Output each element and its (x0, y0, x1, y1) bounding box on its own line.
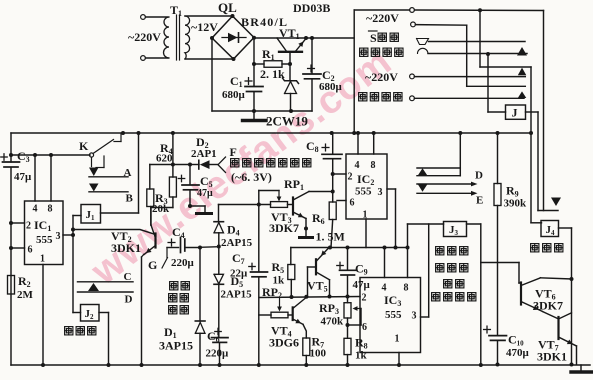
ground VT3 emitter (305, 219, 307, 229)
terminal control output (410, 96, 415, 101)
node bridge+ to R1/C1 (253, 38, 255, 64)
svg-text:2AP1: 2AP1 (191, 148, 217, 160)
wire rail corner to J4 (530, 133, 532, 223)
wire +12V feed to lower rail (479, 10, 481, 67)
wire (145, 16, 168, 18)
svg-text:47μ: 47μ (14, 171, 32, 183)
op IC3 555 timer (360, 278, 421, 353)
wire mid rail y247 (291, 247, 408, 249)
svg-text:D: D (125, 294, 133, 306)
contact arrow down (418, 184, 428, 192)
svg-text:~12V: ~12V (191, 20, 218, 34)
svg-text:8: 8 (48, 204, 53, 215)
svg-text:1. 5M: 1. 5M (316, 230, 345, 244)
svg-text:~220V: ~220V (366, 11, 399, 25)
svg-text:2M: 2M (17, 289, 34, 301)
svg-text:6: 6 (362, 322, 367, 333)
contact C (78, 281, 134, 283)
contact arrow (518, 68, 527, 76)
svg-text:2: 2 (362, 293, 367, 304)
svg-text:1: 1 (395, 334, 400, 345)
svg-text:100: 100 (310, 348, 327, 360)
svg-text:470μ: 470μ (506, 347, 530, 359)
svg-text:G: G (148, 258, 157, 272)
wire K feed (11, 154, 90, 156)
contact E line (417, 192, 472, 194)
label off-HV off-LV circuit power switch (436, 247, 444, 255)
wire pin1 down (398, 353, 400, 366)
wire VT2 base (73, 230, 154, 235)
svg-text:6: 6 (350, 198, 355, 209)
wire line2 S (411, 22, 416, 27)
svg-text:4: 4 (33, 204, 38, 215)
contact symbol arc (418, 48, 428, 53)
contact arrow (518, 91, 527, 98)
terminal ~220V output 2 (410, 74, 415, 79)
svg-text:2. 1k: 2. 1k (260, 67, 285, 81)
svg-text:3DK1: 3DK1 (111, 241, 141, 255)
wire pin6 stub (337, 200, 346, 202)
svg-text:1: 1 (363, 210, 368, 221)
wire pin2 stub (333, 173, 346, 175)
svg-text:E: E (476, 195, 483, 207)
wire VT5 base elbow (308, 266, 317, 268)
wire VT6 base feed (481, 262, 519, 264)
svg-text:~220V: ~220V (128, 30, 161, 44)
svg-text:2: 2 (26, 221, 31, 232)
svg-text:47μ: 47μ (353, 279, 371, 291)
wire J1 left down (73, 215, 81, 217)
wire pin1 down (365, 219, 367, 248)
wire pin4 pin8 up (34, 155, 36, 201)
svg-text:C: C (124, 271, 132, 283)
wire G branch (166, 248, 168, 258)
wire C4 to D4/D5 node (200, 246, 219, 249)
relay J1 (81, 205, 101, 224)
wire pin8 up and rail elbow (407, 224, 409, 278)
svg-text:3: 3 (412, 311, 417, 322)
contact D line (417, 183, 472, 185)
svg-text:22μ: 22μ (230, 268, 248, 280)
relay J (487, 54, 489, 112)
label self-monitor transformer (170, 282, 178, 290)
wire line3 (429, 41, 526, 43)
ground bottom right (580, 365, 582, 371)
contact arrow (517, 47, 527, 56)
wire J1 right to rail (101, 212, 139, 214)
wire relay J to contacts (526, 111, 539, 113)
svg-text:20k: 20k (152, 203, 170, 215)
wire line6 (414, 97, 524, 99)
wire positive rail y38 (254, 37, 354, 39)
wire right border down (543, 11, 545, 211)
svg-text:220μ: 220μ (206, 348, 230, 360)
contact symbol trapezoid (417, 39, 429, 45)
relay J2 (73, 312, 81, 314)
wire pin3 to J3 (421, 316, 429, 318)
svg-text:2CW19: 2CW19 (266, 114, 308, 129)
ground C5 (188, 204, 192, 208)
wire line1 (414, 9, 543, 12)
svg-text:3DK7: 3DK7 (533, 299, 563, 313)
wire line5 (414, 76, 525, 78)
wire ground rail of supply (212, 110, 312, 112)
wire secondary to bridge (185, 15, 233, 17)
svg-text:1k: 1k (273, 275, 286, 287)
wire bridge left down (211, 38, 213, 111)
svg-text:3DK7: 3DK7 (269, 221, 299, 235)
svg-text:3DK1: 3DK1 (537, 350, 567, 364)
wire J4 right down (559, 227, 572, 229)
wire base line y296 (259, 297, 360, 298)
svg-text:8: 8 (371, 160, 376, 171)
svg-text:555: 555 (385, 309, 402, 321)
svg-text:3DG6: 3DG6 (269, 336, 299, 350)
svg-text:1k: 1k (355, 350, 368, 362)
svg-text:D: D (475, 170, 483, 182)
svg-text:3: 3 (378, 187, 383, 198)
label open-HV (65, 327, 73, 335)
svg-text:220μ: 220μ (171, 257, 195, 269)
svg-text:4: 4 (382, 283, 387, 294)
control output label (359, 93, 367, 101)
terminal ~220V mains input top (141, 15, 146, 20)
svg-text:6: 6 (28, 245, 33, 256)
svg-text:555: 555 (355, 186, 372, 198)
contact arrow (88, 283, 99, 291)
op IC1 555 timer (25, 201, 64, 265)
contact A (89, 168, 99, 177)
op IC2 555 timer (346, 154, 387, 219)
svg-text:2: 2 (348, 172, 353, 183)
wire pin2 pin6 stubs (11, 222, 25, 224)
wire R3/R4 join (151, 207, 173, 209)
wire line4 clock (428, 53, 527, 55)
svg-text:2AP15: 2AP15 (221, 289, 253, 301)
svg-text:DD03B: DD03B (293, 1, 330, 15)
wire pin1 down (42, 265, 44, 366)
svg-text:A: A (124, 167, 132, 179)
svg-text:8: 8 (404, 283, 409, 294)
terminal F arrow (218, 157, 226, 173)
svg-text:2AP15: 2AP15 (221, 237, 253, 249)
svg-text:(~6. 3V): (~6. 3V) (231, 170, 272, 184)
svg-text:J: J (512, 106, 518, 120)
svg-text:4: 4 (355, 160, 360, 171)
zener diode 2CW19 (289, 64, 291, 81)
terminal ~220V output 1 (410, 8, 415, 13)
svg-text:QL: QL (218, 0, 237, 15)
svg-text:~220V: ~220V (365, 70, 398, 84)
wire main +V rail (11, 132, 531, 134)
svg-text:390k: 390k (504, 198, 528, 210)
svg-text:1: 1 (40, 254, 45, 265)
svg-text:3AP15: 3AP15 (159, 339, 193, 353)
label off-LV (531, 244, 539, 252)
contact feed from rail (459, 133, 461, 176)
ground (253, 111, 255, 119)
svg-text:47μ: 47μ (197, 188, 213, 199)
svg-text:470k: 470k (321, 316, 345, 328)
svg-text:680μ: 680μ (319, 81, 343, 93)
svg-text:F: F (230, 145, 237, 159)
wire pin3 to rail (387, 188, 396, 190)
svg-text:620: 620 (156, 153, 173, 165)
label self-HV indicator circuit (231, 159, 239, 167)
wire pin4 pin8 up (357, 133, 359, 154)
contact arrow up (418, 168, 428, 175)
relay J4 (541, 221, 559, 237)
clock control label (360, 48, 368, 56)
svg-text:555: 555 (36, 234, 53, 246)
svg-text:3: 3 (56, 231, 61, 242)
svg-text:S: S (370, 31, 377, 45)
wire +12V jog to line1 and rail (353, 10, 355, 133)
svg-text:680μ: 680μ (222, 89, 246, 101)
contact arrow down (551, 198, 561, 207)
relay J3 (444, 222, 467, 237)
wire bottom ground rail (11, 364, 590, 366)
wire pin4 up (384, 248, 386, 278)
contact D (78, 291, 134, 293)
wire J3 right down (467, 223, 481, 225)
wire VT3 collector to R6 node (309, 191, 333, 193)
wire pin3 to J1/J2 (63, 234, 73, 236)
wire contact pole (91, 157, 93, 166)
contact pair lines (417, 167, 460, 169)
svg-text:B: B (126, 193, 134, 205)
contact B (89, 184, 99, 192)
svg-text:K: K (79, 139, 89, 153)
watermark (83, 40, 400, 294)
